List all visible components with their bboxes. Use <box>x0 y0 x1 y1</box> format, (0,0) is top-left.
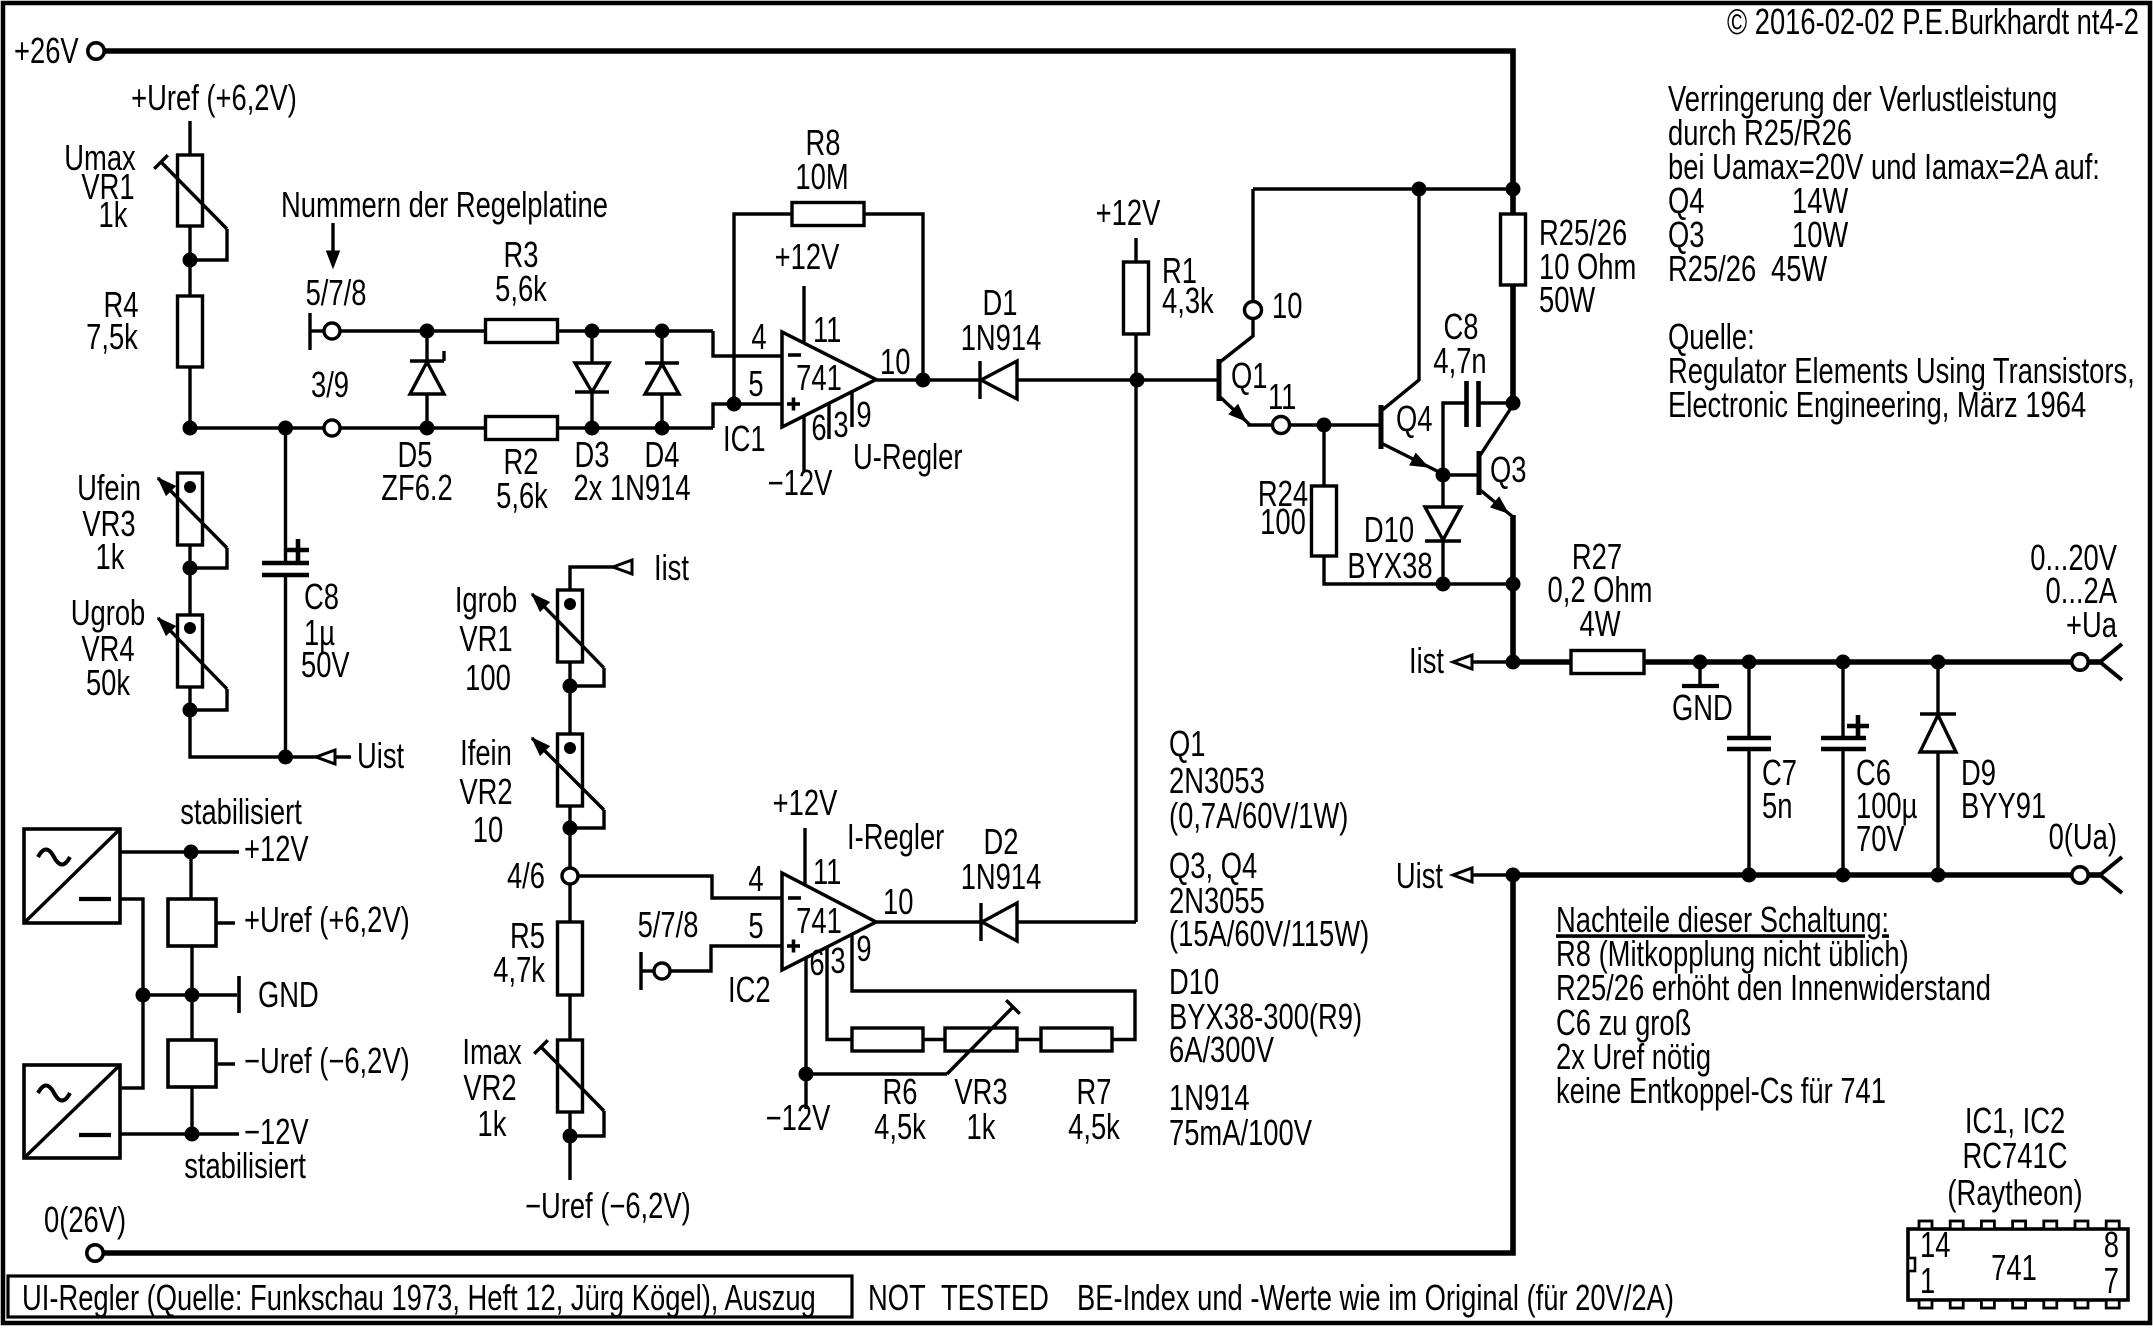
svg-text:+12V: +12V <box>775 236 840 277</box>
svg-text:Ugrob: Ugrob <box>71 592 146 633</box>
svg-text:Ifein: Ifein <box>460 732 512 773</box>
svg-text:1: 1 <box>1920 1260 1935 1301</box>
svg-text:4,3k: 4,3k <box>1162 280 1215 321</box>
wire box1 minus to vertical <box>120 899 143 1088</box>
svg-text:9: 9 <box>856 394 871 435</box>
wire 4/6 down to R5 <box>568 885 571 923</box>
svg-text:1k: 1k <box>478 1103 508 1144</box>
node bus / C8 / Q3 collector <box>1506 396 1521 411</box>
svg-text:(15A/60V/115W): (15A/60V/115W) <box>1169 913 1369 954</box>
svg-text:8: 8 <box>2104 1224 2119 1265</box>
svg-text:7,5k: 7,5k <box>86 316 139 357</box>
ground GND symbol PSU <box>237 976 241 1013</box>
svg-text:1k: 1k <box>967 1106 997 1147</box>
svg-text:3/9: 3/9 <box>311 364 349 405</box>
resistor R1 4,3k <box>1134 238 1137 262</box>
svg-text:keine Entkoppel-Cs für 741: keine Entkoppel-Cs für 741 <box>1556 1070 1886 1111</box>
svg-text:UI-Regler (Quelle: Funkschau 1: UI-Regler (Quelle: Funkschau 1973, Heft … <box>22 1277 816 1318</box>
wire pin 9 to R7 <box>852 934 1135 1040</box>
svg-text:6: 6 <box>809 942 824 983</box>
resistor R7 4,5k <box>1041 1028 1112 1051</box>
svg-text:100: 100 <box>465 657 511 698</box>
wire top rail to transistors <box>1253 187 1513 190</box>
wire to node 4/6 <box>568 806 571 868</box>
node GND junction 1 <box>136 988 151 1003</box>
output fork 0(Ua) <box>2088 872 2100 878</box>
svg-text:5/7/8: 5/7/8 <box>306 272 367 313</box>
wire VR1-R4 <box>188 226 191 296</box>
polarity + of C8 <box>287 548 309 553</box>
node D1-R1-Q1 <box>1130 373 1145 388</box>
op-amp IC2 741 <box>782 873 876 970</box>
resistor R6 4,5k <box>852 1028 923 1051</box>
svg-text:741: 741 <box>796 357 842 398</box>
caption box <box>8 1276 852 1317</box>
capacitor C8 4,7n <box>1443 403 1466 475</box>
svg-text:100: 100 <box>1260 501 1306 542</box>
svg-text:70V: 70V <box>1856 818 1905 859</box>
connector 11 Q1 emitter <box>1273 417 1290 434</box>
wire Q1 collector <box>1251 189 1254 301</box>
svg-text:BYY91: BYY91 <box>1961 785 2046 826</box>
node D4 bottom <box>655 421 670 436</box>
svg-text:1k: 1k <box>96 536 126 577</box>
wire 5/7/8 to R3 <box>341 329 487 332</box>
svg-text:(Raytheon): (Raytheon) <box>1947 1172 2082 1213</box>
node Uist junction <box>1506 868 1521 883</box>
capacitor C6 100u 70V <box>1836 655 1851 670</box>
svg-text:10: 10 <box>473 809 503 850</box>
output fork +Ua <box>2088 659 2100 665</box>
wire to GND node <box>190 946 193 1040</box>
svg-text:Igrob: Igrob <box>455 579 517 620</box>
transistor Q4 2N3055 <box>1379 405 1384 449</box>
svg-text:741: 741 <box>796 900 842 941</box>
wire -12V out <box>120 1132 239 1135</box>
wire -12V supply IC2 pin 6 <box>804 958 807 1109</box>
svg-text:7: 7 <box>2104 1260 2119 1301</box>
svg-text:NOT TESTED: NOT TESTED <box>868 1277 1049 1318</box>
svg-text:GND: GND <box>258 974 319 1015</box>
wire pin 3 to R6 <box>827 947 852 1040</box>
svg-text:R25/26: R25/26 <box>1668 248 1756 289</box>
svg-text:5n: 5n <box>1762 785 1792 826</box>
svg-text:1N914: 1N914 <box>961 317 1042 358</box>
svg-text:IC2: IC2 <box>728 969 771 1010</box>
svg-text:4: 4 <box>751 316 766 357</box>
regulator box -Uref <box>168 1040 216 1087</box>
node VR4 wiper junction <box>183 703 198 718</box>
node Imax wiper <box>563 1129 578 1144</box>
resistor R2 <box>486 417 558 440</box>
svg-text:Iist: Iist <box>654 547 689 588</box>
node bus top junction <box>1506 182 1521 197</box>
svg-text:Q4: Q4 <box>1396 398 1433 439</box>
wire +12V out <box>120 850 239 853</box>
terminal 3/9 <box>324 420 340 436</box>
svg-text:Nummern der Regelplatine: Nummern der Regelplatine <box>281 184 608 225</box>
svg-text:Uist: Uist <box>1396 855 1443 896</box>
node R8 feedback to plus input <box>727 397 742 412</box>
svg-text:5,6k: 5,6k <box>495 268 548 309</box>
node D3 top <box>585 324 600 339</box>
svg-text:1N914: 1N914 <box>961 856 1042 897</box>
wire VR4 to Uist line <box>190 687 351 757</box>
converter box 2 <box>24 1065 120 1158</box>
Q3 collector <box>1479 405 1513 457</box>
svg-text:C8: C8 <box>304 576 339 617</box>
capacitor C7 5n <box>1742 655 1757 670</box>
node Iist junction <box>1506 655 1521 670</box>
zener diode D5 ZF6.2 <box>425 331 428 361</box>
wire R3 right <box>558 329 714 332</box>
resistor R8 10M feedback <box>734 214 793 404</box>
potentiometer VR3 1k <box>945 1028 1017 1051</box>
pin stub 3 IC1 <box>827 403 830 439</box>
node C8 top junction <box>278 421 293 436</box>
svg-text:+12V: +12V <box>773 782 838 823</box>
polarity + of C6 <box>1847 724 1869 729</box>
svg-text:5: 5 <box>748 905 763 946</box>
svg-text:0(Ua): 0(Ua) <box>2049 816 2117 857</box>
node D5 top <box>420 324 435 339</box>
node GND junction <box>1693 655 1708 670</box>
svg-text:−12V: −12V <box>766 1097 831 1138</box>
diode D2 1N914 <box>979 903 982 941</box>
svg-text:75mA/100V: 75mA/100V <box>1169 1112 1313 1153</box>
svg-text:Ufein: Ufein <box>77 467 141 508</box>
svg-text:11: 11 <box>813 851 841 892</box>
node D4 top <box>655 324 670 339</box>
wire to -Uref <box>568 1112 571 1180</box>
resistor R4 <box>178 296 203 367</box>
IC package 741 DIP body <box>1908 1229 2128 1300</box>
svg-text:Electronic Engineering, März 1: Electronic Engineering, März 1964 <box>1668 384 2086 425</box>
terminal 4/6 <box>562 868 578 884</box>
diode D1 1N914 <box>978 361 981 399</box>
svg-text:4,7n: 4,7n <box>1433 340 1486 381</box>
svg-text:6: 6 <box>811 407 826 448</box>
wire +Uref lead <box>188 121 191 155</box>
Q4 emitter <box>1381 443 1443 474</box>
potentiometer VR2 Imax <box>558 1040 583 1112</box>
terminal 5/7/8 IC2 <box>639 952 642 990</box>
svg-text:4: 4 <box>748 858 763 899</box>
Q1 emitter <box>1219 396 1272 425</box>
node IC1 output <box>916 373 931 388</box>
wire R4 to node 3/9 <box>188 367 191 428</box>
svg-text:−Uref (−6,2V): −Uref (−6,2V) <box>525 1185 691 1226</box>
svg-text:10: 10 <box>880 341 910 382</box>
svg-text:+26V: +26V <box>14 30 79 71</box>
svg-text:4W: 4W <box>1579 603 1621 644</box>
wire Q1 emitter to Q4 base <box>1291 423 1380 426</box>
svg-text:10: 10 <box>883 881 913 922</box>
node Q4 collector top <box>1412 182 1427 197</box>
resistor R25/26 10 Ohm 50W <box>1501 214 1526 285</box>
svg-text:+Ua: +Ua <box>2066 604 2117 645</box>
svg-text:RC741C: RC741C <box>1963 1135 2068 1176</box>
svg-text:3: 3 <box>830 940 845 981</box>
node D5 bottom <box>420 421 435 436</box>
svg-text:I-Regler: I-Regler <box>847 816 945 857</box>
transistor Q1 2N3053 <box>1217 359 1222 401</box>
svg-text:VR2: VR2 <box>459 771 512 812</box>
wire IC1 output <box>876 378 980 381</box>
node VR3 wiper junction <box>183 561 198 576</box>
wire -12V supply IC1 <box>802 415 805 472</box>
svg-text:9: 9 <box>856 928 871 969</box>
node Ifein wiper <box>563 821 578 836</box>
svg-text:GND: GND <box>1672 687 1733 728</box>
potentiometer VR1 Igrob <box>558 590 583 662</box>
svg-text:10M: 10M <box>795 156 848 197</box>
wire D10/R24 bottom line <box>1441 582 1513 585</box>
node D10 bottom <box>1436 577 1451 592</box>
svg-text:0(26V): 0(26V) <box>44 1199 126 1240</box>
wire box B to -12V node <box>190 1087 193 1134</box>
diode D4 <box>660 331 663 363</box>
svg-text:4,5k: 4,5k <box>874 1106 927 1147</box>
svg-text:© 2016-02-02 P.E.Burkhardt nt4: © 2016-02-02 P.E.Burkhardt nt4-2 <box>1727 1 2139 42</box>
svg-text:VR2: VR2 <box>463 1067 516 1108</box>
node D3 bottom <box>585 421 600 436</box>
svg-text:Iist: Iist <box>1409 640 1444 681</box>
svg-text:+Uref (+6,2V): +Uref (+6,2V) <box>131 77 297 118</box>
svg-text:Q3: Q3 <box>1490 449 1527 490</box>
svg-text:IC1: IC1 <box>723 418 766 459</box>
svg-text:+Uref (+6,2V): +Uref (+6,2V) <box>244 899 410 940</box>
diode D10 BYX38 <box>1441 475 1444 507</box>
svg-text:5: 5 <box>748 363 763 404</box>
resistor R24 100 <box>1322 425 1325 486</box>
IC package pins bottom <box>1919 1300 1932 1308</box>
terminal 5/7/8 top <box>308 313 311 350</box>
node R24 top <box>1317 418 1332 433</box>
node junction 3/9 left <box>183 421 198 436</box>
terminal +26V <box>88 43 104 59</box>
svg-text:+12V: +12V <box>1096 192 1161 233</box>
potentiometer VR3 Ufein <box>178 473 203 545</box>
wire Uist output line <box>1513 872 2071 878</box>
resistor R27 0,2 Ohm 4W <box>1513 659 1571 665</box>
node +12V junction <box>184 845 199 860</box>
node Uist-left junction <box>278 750 293 765</box>
svg-text:10: 10 <box>1272 285 1302 326</box>
wire 0(26V) bottom bus <box>105 875 1514 1253</box>
ground GND output <box>1698 662 1701 686</box>
potentiometer VR1 Umax <box>178 155 203 226</box>
wire Q3 emitter down <box>1510 515 1516 662</box>
wire Igrob-Ifein <box>568 662 571 734</box>
wire 3/9 to D5 <box>341 426 487 429</box>
svg-text:4/6: 4/6 <box>507 855 545 896</box>
wire IC1 minus input jog <box>713 331 782 356</box>
svg-text:−12V: −12V <box>768 462 833 503</box>
svg-text:50W: 50W <box>1539 279 1596 320</box>
svg-text:6A/300V: 6A/300V <box>1169 1029 1275 1070</box>
node -12V VR3 wiper junction <box>799 1067 814 1082</box>
terminal +Ua <box>2072 654 2088 670</box>
svg-text:50V: 50V <box>301 644 350 685</box>
connector 10 Q1 collector <box>1245 302 1262 319</box>
diode D9 BYY91 <box>1931 655 1946 670</box>
wire R5 to Imax <box>568 995 571 1040</box>
wire R2 right <box>558 426 714 429</box>
arrow Iist top <box>570 567 633 590</box>
node Q4 emitter / Q3 base <box>1436 468 1451 483</box>
regulator box +Uref <box>189 852 192 899</box>
terminal 0(Ua) <box>2072 867 2088 883</box>
transistor Q3 2N3055 <box>1477 451 1482 495</box>
wire R1 node down to I-regler diode D2 <box>1134 380 1137 922</box>
terminal 0(26V) <box>87 1245 103 1261</box>
svg-text:1k: 1k <box>99 194 129 235</box>
potentiometer VR4 Ugrob <box>178 615 203 687</box>
wire GND line <box>143 993 237 996</box>
svg-text:5,6k: 5,6k <box>496 475 549 516</box>
svg-text:+12V: +12V <box>244 828 309 869</box>
wire Q3 base <box>1443 473 1477 476</box>
wire IC1 plus input jog <box>713 404 782 428</box>
svg-text:4,7k: 4,7k <box>493 949 546 990</box>
node VR1 wiper junction <box>183 253 198 268</box>
svg-text:VR1: VR1 <box>459 618 512 659</box>
wire IC2 output <box>876 920 981 923</box>
svg-text:BYX38: BYX38 <box>1347 545 1432 586</box>
svg-text:14: 14 <box>1920 1224 1950 1265</box>
wire +26V bus top <box>106 51 1514 214</box>
svg-text:Uist: Uist <box>357 735 404 776</box>
resistor R3 <box>486 320 558 343</box>
svg-text:−Uref (−6,2V): −Uref (−6,2V) <box>244 1040 410 1081</box>
wire VR3-VR4 <box>188 545 191 615</box>
wire R6-VR3 <box>923 1038 945 1041</box>
node Igrob wiper <box>563 679 578 694</box>
svg-text:Imax: Imax <box>462 1031 521 1072</box>
svg-text:11: 11 <box>813 309 841 350</box>
resistor R5 4,7k <box>558 922 583 995</box>
svg-text:stabilisiert: stabilisiert <box>184 1145 306 1186</box>
svg-text:2x 1N914: 2x 1N914 <box>573 467 690 508</box>
arrow Uist left <box>316 750 335 764</box>
node emitter line junction <box>1506 577 1521 592</box>
svg-text:stabilisiert: stabilisiert <box>180 791 302 832</box>
wire 4/6 to IC2 minus <box>579 876 783 898</box>
wire VR3 wiper to -12V <box>806 1072 947 1075</box>
arrow Iist right <box>1472 660 1513 663</box>
wire 5/7/8 to IC2 plus <box>670 946 782 971</box>
svg-text:Q1: Q1 <box>1231 355 1268 396</box>
wire VR3-R7 <box>1017 1038 1041 1041</box>
svg-text:BE-Index und -Werte wie im Ori: BE-Index und -Werte wie im Original (für… <box>1077 1277 1674 1318</box>
diode D3 <box>590 331 593 363</box>
node -12V junction <box>185 1127 200 1142</box>
capacitor C8 1u <box>284 428 287 563</box>
wire +12V supply IC2 <box>803 828 806 886</box>
svg-text:bei Uamax=20V und Iamax=2A auf: bei Uamax=20V und Iamax=2A auf: <box>1668 146 2100 187</box>
svg-text:4,5k: 4,5k <box>1068 1106 1121 1147</box>
svg-text:5/7/8: 5/7/8 <box>638 904 699 945</box>
arrow Uist right <box>1472 873 1513 876</box>
svg-text:45W: 45W <box>1771 248 1828 289</box>
svg-text:3: 3 <box>833 404 848 445</box>
pin stub 9 IC1 <box>850 392 853 427</box>
svg-text:ZF6.2: ZF6.2 <box>381 467 452 508</box>
IC package pins top <box>1919 1221 1932 1229</box>
wire node to C8 <box>190 426 324 429</box>
svg-text:50k: 50k <box>86 662 131 703</box>
IC package notch <box>1908 1258 1915 1271</box>
potentiometer VR2 Ifein <box>558 734 583 806</box>
svg-text:(0,7A/60V/1W): (0,7A/60V/1W) <box>1169 795 1348 836</box>
wire to Q1 base <box>1137 378 1217 381</box>
Q4 collector <box>1381 189 1419 411</box>
svg-text:D10: D10 <box>1364 509 1414 550</box>
svg-text:U-Regler: U-Regler <box>853 436 963 477</box>
Q3 emitter <box>1479 489 1513 517</box>
converter box 1 <box>24 829 120 923</box>
svg-text:Q1: Q1 <box>1169 723 1206 764</box>
svg-text:11: 11 <box>1268 376 1296 417</box>
node GND junction 2 <box>185 988 200 1003</box>
svg-text:741: 741 <box>1991 1247 2037 1288</box>
op-amp IC1 741 <box>782 332 876 427</box>
wire +12V supply IC1 <box>802 286 805 344</box>
